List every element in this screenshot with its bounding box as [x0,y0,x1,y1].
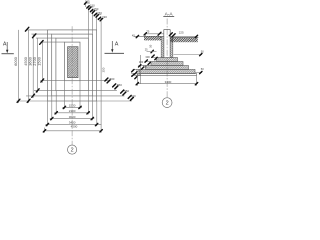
R1 bottom edge extended right [97,100,132,102]
section top dim ticks [144,32,198,37]
bottom row ticks [46,106,98,126]
svg-text:550: 550 [117,83,122,87]
extension line from R2 right-top [92,11,94,34]
dim row 2 [54,112,90,114]
svg-text:A: A [3,42,7,48]
bottom row labels [69,104,76,125]
extension from bedding right [196,75,198,85]
top dim extension right [196,36,198,37]
extension below R4 left [63,81,65,109]
bottom-right cascade labels [110,77,136,98]
left rotated dim labels [13,56,42,65]
grid bubble 2 (section) [162,98,172,108]
svg-text:2: 2 [71,148,74,154]
row5 ticks [43,130,102,132]
svg-text:300: 300 [136,69,141,73]
svg-text:45: 45 [132,34,135,38]
svg-text:550: 550 [124,89,129,93]
dim row 1 [62,106,82,108]
right marker arrow [111,41,113,50]
plan vertical axis line [71,26,73,144]
section left cascade ticks [132,55,158,79]
ground line right + soil hatch [171,37,199,39]
staircase stub 1 [87,6,94,8]
svg-text:50: 50 [201,49,204,53]
svg-text:300: 300 [143,64,148,68]
bedding layer [138,74,197,76]
extension below R2 right [92,96,94,120]
top cascade labels [85,0,108,19]
staircase stub 2 [90,10,97,12]
extension below R2 left [51,96,53,120]
3400 dim ticks [136,83,198,85]
staircase stub 4 [98,17,104,19]
dim line R2 height [32,34,34,98]
column cross-section (hatched) [68,47,78,78]
extension line from R3 right-top [87,7,89,38]
right leader top tick [200,53,202,55]
staircase stub 3 [94,14,102,16]
cup depth stub [147,51,157,53]
svg-text:500: 500 [110,77,115,81]
top cascade ticks [84,2,102,21]
row5 left extension stub [44,128,46,133]
section title underline [163,16,174,18]
dim line R4 height [41,42,43,83]
section left cascade labels [136,55,150,77]
svg-text:3400: 3400 [69,121,76,125]
section left dim vertical line [140,55,142,84]
extension below R3 right [87,91,89,115]
dim row 3 [50,118,95,120]
svg-text:6000: 6000 [13,56,18,65]
footing step 3 (hatched) [146,66,189,70]
ground line left + soil hatch [134,35,162,37]
right marker cut line [105,52,125,54]
footing step 2 (hatched) [151,62,183,66]
extension stub R1 bottom [17,100,48,102]
extension below R4 right [79,81,81,109]
cup wall right (hatched) [170,36,173,57]
left dim top tick cascade [25,27,43,44]
short extension at 125 dim [85,3,87,7]
svg-text:2100: 2100 [69,109,76,113]
dim row 5 (overall) [44,130,101,132]
svg-text:300: 300 [145,55,150,59]
extension stub R4 bottom [40,80,64,82]
svg-text:500: 500 [131,94,136,98]
svg-text:50: 50 [149,44,153,47]
svg-text:25: 25 [145,49,148,52]
extension stub R2 top [31,33,51,35]
dim line overall (far left) [18,30,20,103]
left dim bottom tick cascade [17,79,44,103]
dim row 4 [45,124,101,126]
extension stub R2 bottom [26,95,52,97]
section top dim line [144,33,164,35]
svg-text:3000: 3000 [69,115,76,119]
extension stub R3 top [36,37,56,39]
svg-text:50: 50 [201,67,204,71]
svg-text:225: 225 [179,31,184,35]
extension below R1 right [96,101,98,126]
long extension line right of plan [100,18,102,132]
svg-text:A: A [115,42,119,48]
top dim extension left [144,34,146,37]
section axis line [166,19,168,98]
svg-text:300: 300 [139,60,144,64]
footing step R3 [56,38,89,91]
grid bubble 2 (plan) [68,145,77,154]
right leader bottom tick [200,71,202,73]
column in section [164,30,170,58]
svg-text:3400: 3400 [165,80,172,84]
extension stub R3 bottom [34,90,56,92]
ground leader tick left [136,35,138,37]
left marker cut line [2,53,14,55]
svg-text:75: 75 [146,29,150,33]
right leader top [174,54,203,56]
extension stub R1 top [27,29,48,31]
R3 bottom edge extended right [88,90,117,92]
extension from bedding left [137,75,139,85]
footing slab (hatched) [139,70,195,74]
cup depth tick [151,50,153,52]
svg-text:250: 250 [102,67,106,72]
bottom-right cascade ticks [105,78,133,100]
extension below R3 left [55,91,57,115]
svg-text:4000: 4000 [71,124,78,128]
left marker arrow [6,42,8,51]
section bottom dim 3400 [137,83,197,85]
right leader bottom [195,72,202,74]
R4 bottom edge extended right [80,80,109,82]
dim line R1 height [28,30,30,103]
extension line from R1 right-top [96,15,98,30]
pedestal R4 [64,42,80,81]
footing step 1 (hatched) [157,58,178,62]
svg-text:1500: 1500 [69,104,76,108]
footing step R2 [52,34,93,96]
svg-text:190: 190 [102,15,107,19]
extension stub R4 top [41,41,65,43]
extension below R1 left [46,101,48,126]
svg-text:2: 2 [166,101,169,107]
cup wall left (hatched) [161,36,164,57]
R2 bottom edge extended right [93,95,125,97]
top small dim line 125 [84,2,89,4]
step top extension stubs left [131,58,156,76]
dim line R3 height [37,38,39,93]
svg-text:1500: 1500 [37,56,42,65]
footing outline R1 (outer step) [48,30,97,101]
